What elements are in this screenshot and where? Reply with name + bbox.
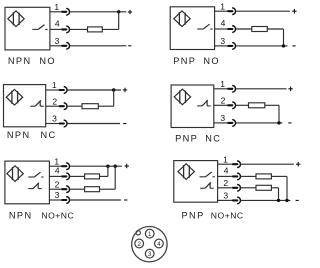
svg-text:3: 3 xyxy=(55,36,60,46)
svg-text:1: 1 xyxy=(54,2,59,12)
svg-text:2: 2 xyxy=(223,178,228,188)
svg-text:NO: NO xyxy=(203,56,220,66)
svg-text:PNP: PNP xyxy=(175,134,198,144)
svg-text:NC: NC xyxy=(205,134,221,144)
svg-text:3: 3 xyxy=(148,251,152,258)
svg-text:2: 2 xyxy=(55,179,60,189)
svg-text:3: 3 xyxy=(223,190,228,200)
svg-text:PNP: PNP xyxy=(182,211,205,221)
svg-text:1: 1 xyxy=(220,1,225,11)
svg-text:2: 2 xyxy=(221,95,226,105)
svg-text:3: 3 xyxy=(52,114,57,124)
svg-text:1: 1 xyxy=(223,154,228,164)
svg-text:1: 1 xyxy=(148,231,152,238)
svg-text:NPN: NPN xyxy=(9,211,33,221)
svg-text:4: 4 xyxy=(55,166,60,176)
svg-text:NPN: NPN xyxy=(7,130,31,140)
svg-text:1: 1 xyxy=(52,80,57,90)
svg-text:NC: NC xyxy=(41,130,57,140)
svg-text:1: 1 xyxy=(220,79,225,89)
svg-text:4: 4 xyxy=(55,19,60,29)
svg-text:3: 3 xyxy=(55,190,60,200)
svg-text:4: 4 xyxy=(157,241,161,248)
svg-text:2: 2 xyxy=(137,241,141,248)
svg-text:3: 3 xyxy=(220,36,225,46)
svg-text:NO+NC: NO+NC xyxy=(41,211,74,221)
svg-text:NPN: NPN xyxy=(8,56,32,66)
svg-text:4: 4 xyxy=(221,18,226,28)
svg-text:NO+NC: NO+NC xyxy=(211,211,244,221)
svg-text:PNP: PNP xyxy=(173,56,196,66)
svg-text:NO: NO xyxy=(39,56,56,66)
svg-text:3: 3 xyxy=(220,113,225,123)
svg-text:4: 4 xyxy=(224,166,229,176)
svg-text:2: 2 xyxy=(52,96,57,106)
